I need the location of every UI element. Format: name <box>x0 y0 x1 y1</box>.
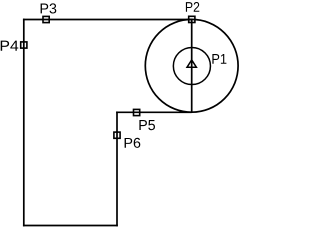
label P5 <box>139 120 155 130</box>
wire vertical diameter line of pulley <box>191 20 193 113</box>
label P6 <box>125 138 141 148</box>
label P1 <box>212 54 226 64</box>
circle inner hub <box>173 47 210 84</box>
label P3 <box>41 3 57 13</box>
wire left vertical line through P4 <box>23 19 25 227</box>
point P1 triangle marker <box>187 60 196 67</box>
point P2 square marker <box>189 16 195 22</box>
wire right vertical line through P6 <box>116 111 118 226</box>
wire middle horizontal tangent line through P5 <box>116 111 192 113</box>
label P2 <box>186 2 199 12</box>
point P5 square marker <box>134 109 140 115</box>
point P4 square marker <box>21 42 27 48</box>
point P6 square marker <box>114 132 120 138</box>
point P3 square marker <box>43 16 49 22</box>
circle outer pulley <box>145 19 238 112</box>
label P4 <box>1 41 19 51</box>
wire top tangent line P3 to P2 <box>23 19 192 21</box>
wire bottom horizontal line <box>23 225 118 227</box>
